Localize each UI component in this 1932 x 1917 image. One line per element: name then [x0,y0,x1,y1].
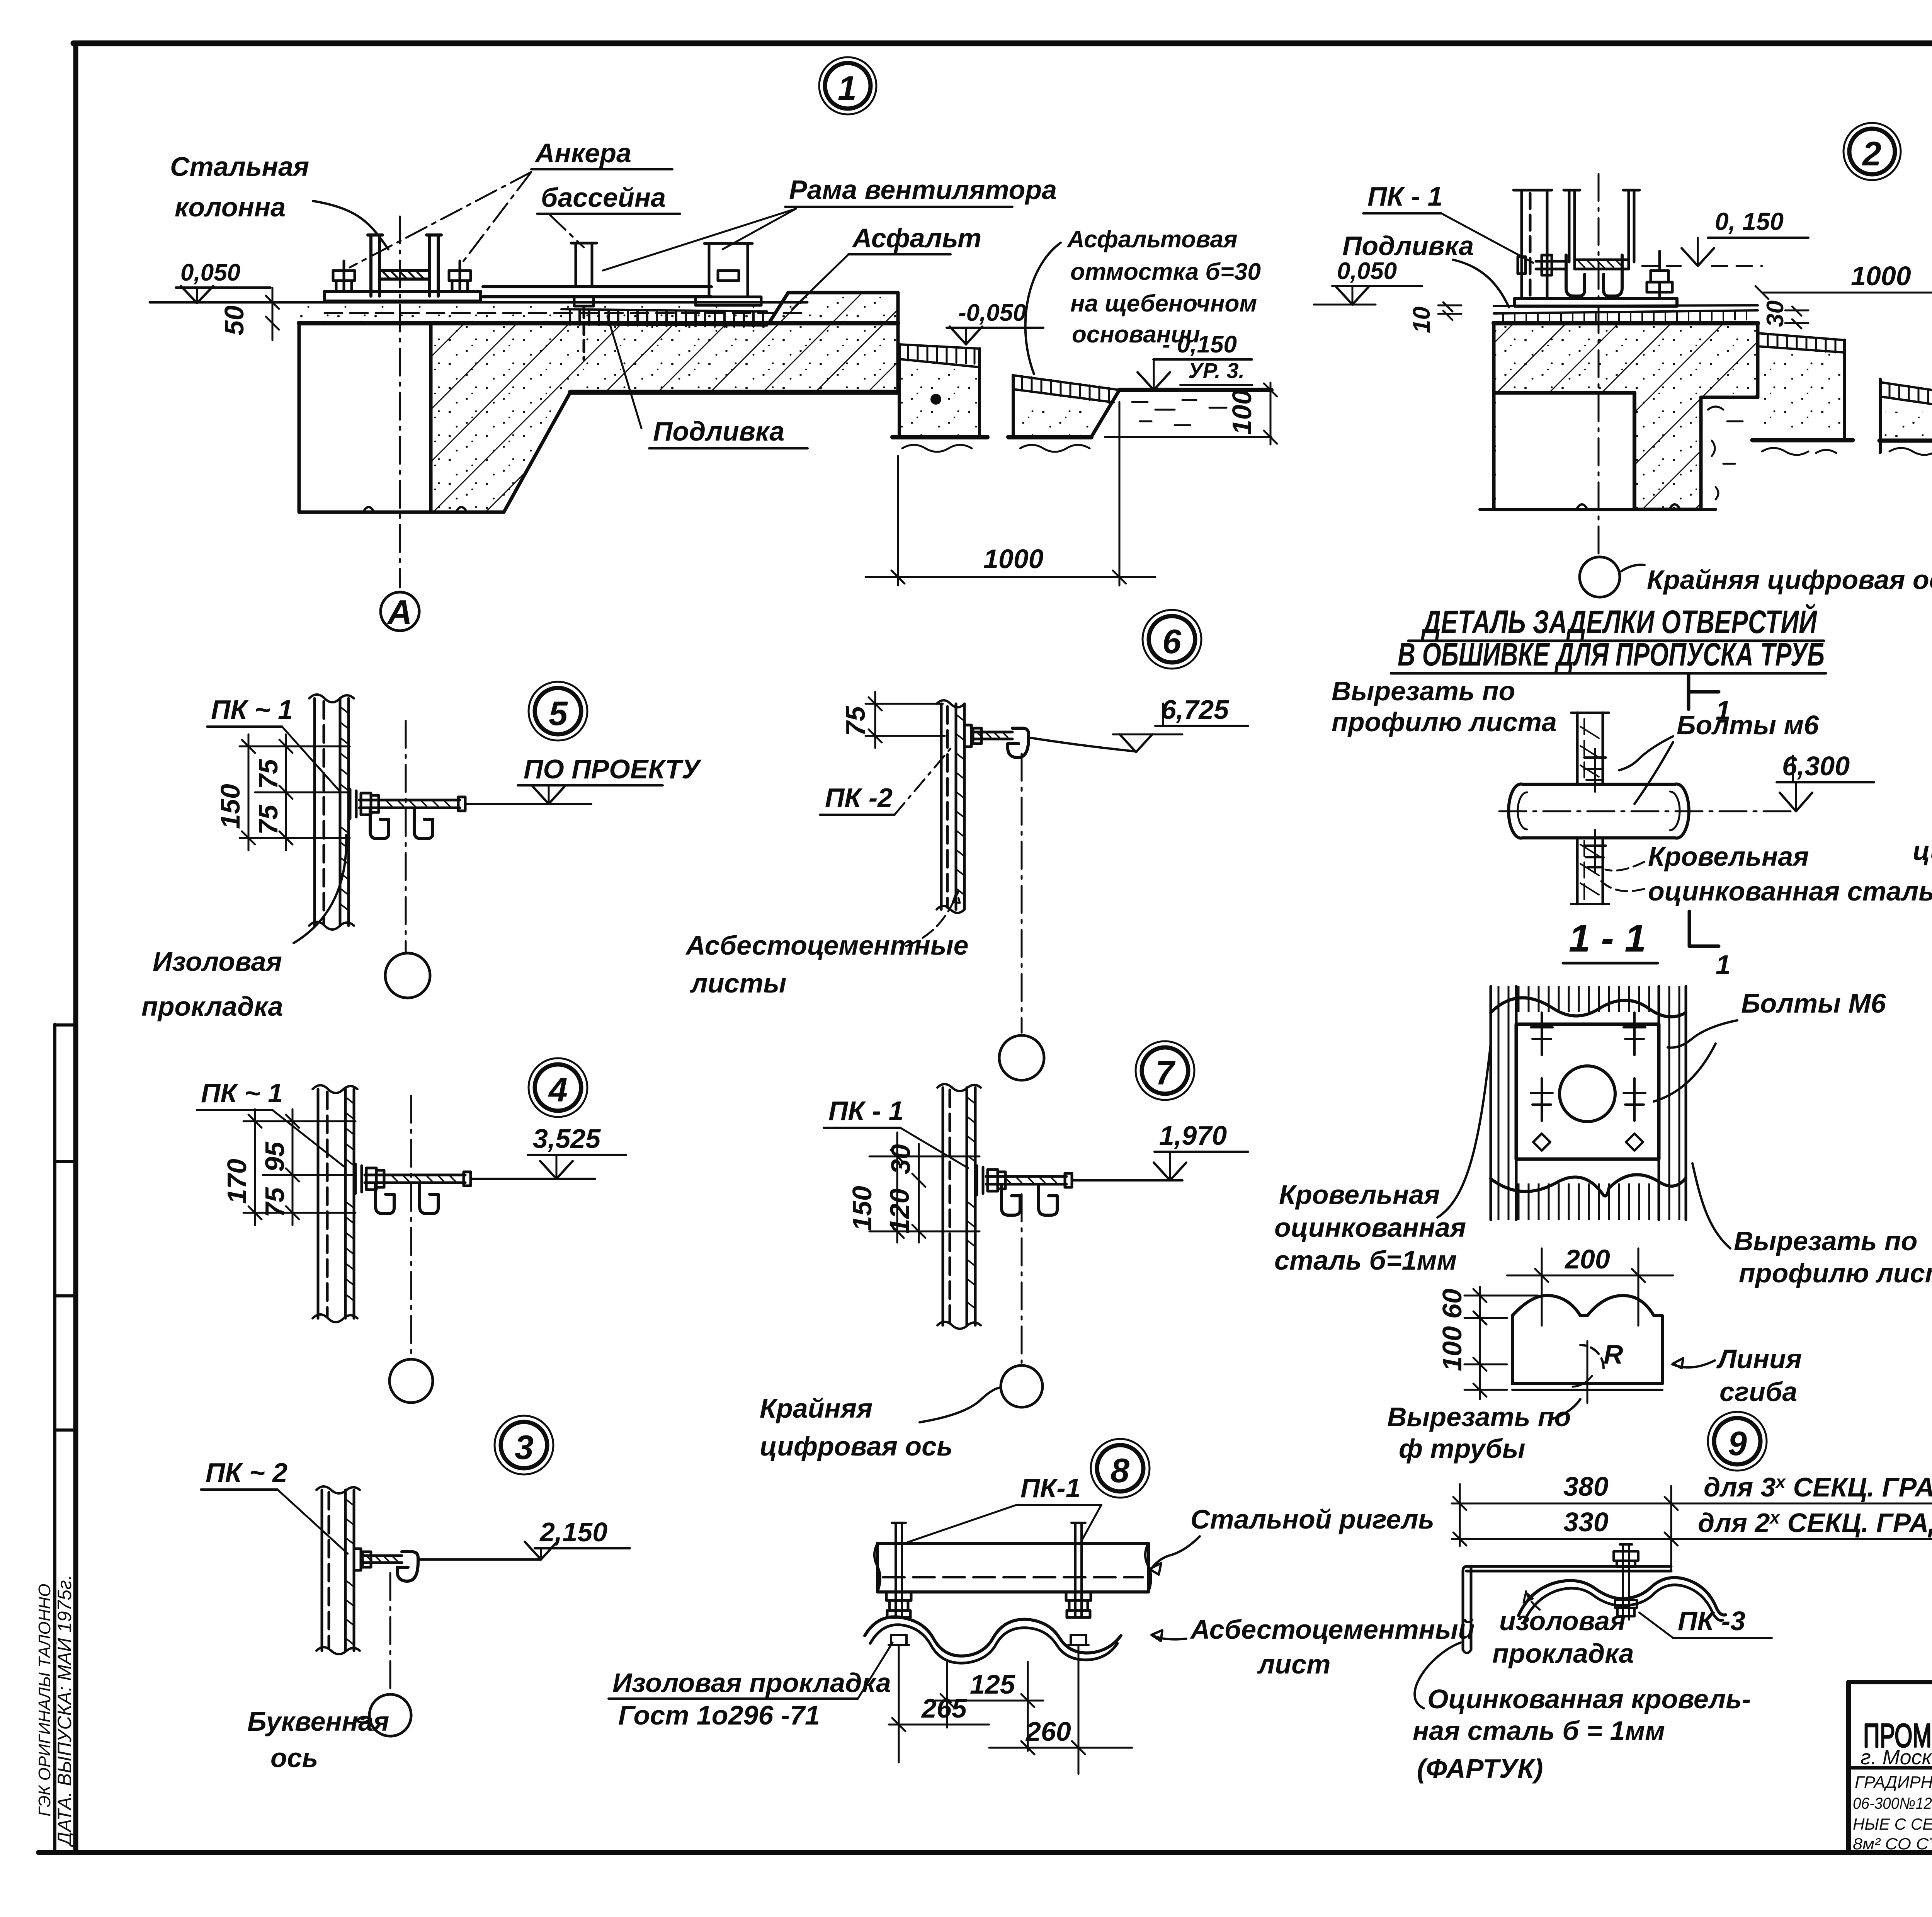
pipe body [1509,784,1689,838]
ground line right of B [1119,388,1271,392]
svg-text:200: 200 [1564,1244,1610,1274]
detail 11 group [1913,516,1932,1020]
axis circle empty [1580,557,1620,597]
svg-text:ГЭК ОРИГИНАЛЫ ТАЛОННО: ГЭК ОРИГИНАЛЫ ТАЛОННО [35,1583,54,1817]
apron D freestanding [1879,379,1932,455]
label krainyaya cifrovaya os [1647,565,1932,595]
sheet frame bottom line [39,1850,1932,1855]
svg-text:Стальная: Стальная [170,152,309,182]
svg-text:380: 380 [1563,1471,1609,1502]
label asbestocementnye listy [685,930,969,998]
svg-text:бассейна: бассейна [541,182,666,213]
detail 4 group [197,1058,626,1403]
title line 1 [1421,603,1817,640]
detail 6 bubble [1143,610,1201,669]
corrugated strips vertical hatch [1491,986,1516,1220]
axis circle [385,953,430,998]
plate with wavy top [1491,998,1686,1017]
sheet frame left line [73,43,78,1852]
detail 1 bubble [819,57,876,114]
detail 6 group [685,610,1248,1080]
inner left stamp line [53,1024,56,1852]
dim extension lines [899,1646,1078,1774]
svg-text:Асфальт: Асфальт [852,223,981,253]
svg-text:Асфальтовая: Асфальтовая [1066,226,1238,253]
steel beam [874,1543,1151,1592]
svg-text:0,050: 0,050 [1337,258,1397,284]
svg-text:(ФАРТУК): (ФАРТУК) [1417,1754,1543,1784]
svg-text:Гост 1о296 -71: Гост 1о296 -71 [618,1700,820,1730]
steel column left [1514,190,1552,298]
svg-text:прокладка: прокладка [1492,1638,1634,1668]
elevation 1,970 [1154,1120,1248,1180]
detail 7 group [760,1041,1248,1461]
label PK-1 [828,1096,904,1126]
detail 8 bubble [1091,1439,1150,1498]
stamp rotated text date [35,1575,75,1847]
svg-text:7: 7 [1155,1054,1176,1092]
svg-text:Вырезать по: Вырезать по [1734,1226,1917,1256]
label PK-2 [206,1457,287,1488]
svg-text:сгиба: сгиба [1719,1377,1797,1407]
detail 7 bubble [1136,1041,1194,1100]
detail 2 group [1314,123,1932,597]
svg-text:100: 100 [1437,1326,1467,1371]
svg-text:г. Москва: г. Москва [1861,1746,1932,1769]
svg-text:150: 150 [847,1186,877,1231]
svg-text:ПК -2: ПК -2 [825,783,893,813]
slab bottom thick line [570,390,898,395]
PK-1 leaders [908,1505,1101,1542]
podlivka leader [607,316,641,428]
dim 30 right [1762,300,1808,329]
dims 60 100 [1437,1287,1538,1399]
label asphalt [852,223,981,253]
dim 10 left [1408,302,1461,333]
svg-text:Крайняя цифровая ось: Крайняя цифровая ось [1647,565,1932,595]
svg-text:для 2х СЕКЦ. ГРАДИРНИ: для 2х СЕКЦ. ГРАДИРНИ [1698,1507,1932,1538]
axis dash-dot [1021,754,1023,1033]
elevation po proektu [518,754,702,804]
ankera leaders [350,172,584,267]
svg-text:125: 125 [970,1669,1015,1699]
section mark 1 bottom [1689,911,1731,980]
column axis dash-dot [1598,174,1600,556]
elevation 0,050 d2 [1314,258,1422,305]
label krainyaya cifrovaya os [760,1393,953,1461]
sheet vertical with hatch [1571,713,1609,904]
dim 1000 d2 [1755,261,1932,398]
soil marks right of block [1708,407,1743,499]
label podlivka [653,416,784,446]
detail 5 group [141,682,702,1021]
detail 3 bubble [495,1416,553,1474]
label bolty M6 lower [1741,988,1886,1018]
label rama ventilyatora [789,175,1057,205]
column axis dash-dot [399,216,401,587]
otmostka leader [1026,243,1061,374]
svg-text:30: 30 [886,1144,916,1174]
bottom break bumps [1577,504,1680,509]
svg-text:Рама вентилятора: Рама вентилятора [789,175,1057,205]
axis circle A [381,592,419,631]
svg-text:1000: 1000 [983,544,1044,574]
label izolovaya d9 [1492,1606,1634,1668]
svg-text:120: 120 [884,1188,915,1234]
svg-text:Асбестоцементный: Асбестоцементный [1190,1614,1475,1645]
svg-text:1: 1 [838,69,857,107]
datum line right [471,1178,595,1180]
svg-text:Линия: Линия [1716,1344,1802,1374]
svg-text:А: А [387,593,412,631]
rama leaders [603,209,796,271]
label stalnoy rigel [1190,1504,1434,1534]
svg-text:ная сталь б = 1мм: ная сталь б = 1мм [1413,1716,1665,1746]
stamp box divider [55,1428,76,1432]
dim 265 [889,1693,989,1731]
right washer stack [1066,1592,1091,1617]
svg-text:прокладка: прокладка [141,991,283,1021]
svg-text:Подливка: Подливка [1342,231,1474,261]
column base plate [325,291,481,301]
svg-text:на щебеночном: на щебеночном [1070,290,1257,317]
stamp tick 2 [55,1160,76,1163]
svg-text:ГРАДИРНИ С ВЕНТИЛЯТОРАМИ: ГРАДИРНИ С ВЕНТИЛЯТОРАМИ [1855,1773,1932,1792]
stamp tick 1 [55,1023,76,1027]
svg-text:95: 95 [260,1141,290,1172]
anchor bolt right [1647,251,1672,298]
bolt assembly [350,789,465,819]
bolt assembly [977,1166,1072,1195]
dim 100 right [1227,383,1277,444]
axis circle [1001,1365,1043,1407]
label stalnaya kolonna [170,152,309,222]
svg-text:75: 75 [253,804,283,835]
datum line right [1028,737,1135,751]
pipe centerline [1499,810,1797,812]
R arc mark [1573,1339,1623,1403]
svg-text:В ОБШИВКЕ ДЛЯ ПРОПУСКА ТРУ: В ОБШИВКЕ ДЛЯ ПРОПУСКА ТРУБ [1398,636,1825,672]
svg-text:УР. 3.: УР. 3. [1188,358,1245,383]
PK-1 clamp hooks [1566,255,1622,296]
svg-text:лист: лист [1257,1649,1330,1679]
svg-text:265: 265 [921,1693,967,1723]
svg-text:1000: 1000 [1851,261,1911,291]
clamp hooks [370,809,433,839]
label PK-1 [201,1078,283,1108]
concrete block hatched [1494,323,1758,509]
bolt at fartuk [1614,1544,1638,1619]
svg-text:ось: ось [270,1743,318,1773]
axis dash-dot [405,721,407,952]
svg-text:отмостка б=30: отмостка б=30 [1070,259,1261,285]
svg-text:Подливка: Подливка [653,416,784,446]
svg-text:Крайняя: Крайняя [760,1393,872,1423]
axis circle [389,1359,433,1403]
svg-text:Изоловая: Изоловая [153,947,282,977]
plate bottom wave [1491,1175,1686,1196]
ground surface line [150,301,807,304]
pool anchor bolts mid [571,243,597,359]
dim 1000 [866,402,1155,586]
fartuk flat sheet [1512,1296,1662,1390]
apron block B [1009,375,1119,452]
detail 5 bubble [529,682,587,741]
detail 4 bubble [529,1058,587,1117]
svg-text:ПК ~ 1: ПК ~ 1 [211,695,293,725]
elevation 2,150 [525,1517,630,1559]
steel column channel [368,235,441,296]
svg-text:6,725: 6,725 [1161,695,1229,725]
section mark 1 top [1689,674,1731,725]
bolt assembly [355,1164,471,1193]
pier outline [1494,393,1634,509]
plate circle [1560,1066,1615,1122]
svg-text:листы: листы [690,968,786,998]
stamp tick 3 [55,1294,76,1297]
dim 125 [935,1669,1043,1707]
svg-text:изоловая: изоловая [1499,1606,1626,1636]
label asphalt otmostka [1066,226,1261,348]
grout band bottom line [299,321,898,325]
axis dash-dot [1021,1194,1023,1363]
svg-text:Анкера: Анкера [534,138,631,168]
label bolty m6 [1677,710,1819,740]
datum line right [1072,1179,1182,1182]
ankera underlines [531,169,680,214]
svg-text:- 0,150: - 0,150 [1162,331,1237,358]
asphalt tick band on surface [561,309,767,327]
clamp hooks [376,1183,438,1214]
svg-text:50: 50 [219,305,249,335]
corrugated sheet d9 [1519,1578,1726,1616]
axis circle [369,1694,411,1736]
svg-text:06-300№12,5 ПЛЕНОЧНЫЕ ИКАПЕЛЬ: 06-300№12,5 ПЛЕНОЧНЫЕ ИКАПЕЛЬ [1853,1794,1932,1812]
left nut below sheet [889,1635,909,1645]
svg-text:Болты м6: Болты м6 [1677,710,1819,740]
label krovelnaya 2 [1274,1180,1466,1275]
column profile [309,695,354,930]
fartuk angle sheet [1463,1566,1671,1653]
detail 8 group [609,1439,1475,1774]
datum line right [465,803,591,805]
svg-text:Стальной ригель: Стальной ригель [1190,1504,1434,1534]
svg-text:Кровельная: Кровельная [1648,841,1809,872]
podlivka leader d2 [1453,260,1509,307]
plate bolts crosses [1531,1013,1645,1151]
label izolovaya prokladka [141,947,283,1021]
axis dash-dot [410,1096,412,1357]
fan frame member [483,287,711,297]
label liniya sgiba [1716,1344,1802,1407]
svg-text:3,525: 3,525 [533,1124,601,1154]
svg-text:4: 4 [548,1071,568,1109]
svg-text:ПК -3: ПК -3 [1678,1606,1745,1636]
grout line under plate [1494,305,1758,306]
elevation 0,050 left [176,259,270,303]
label ocinkovannaya krovelnaya [1413,1684,1751,1784]
apron C attached [1752,333,1853,455]
dims 170 95 75 [222,1109,355,1225]
label vyrezat po f truby [1387,1402,1571,1464]
left anchor bolt [333,261,355,291]
pier cutout white [1496,393,1634,509]
detail 3 group [201,1416,630,1773]
svg-text:75: 75 [840,706,871,736]
sheet frame top line [73,41,1932,46]
detail 2 bubble [1844,123,1901,180]
label asbest list [1190,1614,1475,1679]
svg-text:1 - 1: 1 - 1 [1569,917,1646,960]
section label 1-1 [1569,917,1646,960]
svg-text:100: 100 [1227,390,1257,435]
label bukvennaya os [247,1706,389,1773]
detail 9 group [1413,1412,1932,1784]
leader kolonna [313,201,388,249]
svg-text:ДЕТАЛЬ ЗАДЕЛКИ ОТВЕРСТИЙ: ДЕТАЛЬ ЗАДЕЛКИ ОТВЕРСТИЙ [1421,603,1817,640]
svg-text:ПК - 1: ПК - 1 [1367,181,1443,211]
svg-text:9: 9 [1728,1424,1747,1462]
svg-text:R: R [1604,1339,1623,1369]
svg-text:75: 75 [260,1187,290,1217]
svg-text:ДАТА. ВЫПУСКА: МАЙ 1975г: ДАТА. ВЫПУСКА: МАЙ 1975г. [54,1575,75,1847]
svg-text:150: 150 [215,784,245,829]
pier break marks [363,507,467,512]
title line 2 [1398,636,1825,672]
left washer stack [886,1592,911,1617]
left bolt through beam [892,1523,906,1616]
column profile [316,1486,360,1654]
svg-text:1,970: 1,970 [1159,1120,1227,1151]
elevation 6,725 [1113,695,1248,752]
bolt with hook clamp [964,725,1029,758]
corrugated sheet [865,1617,1121,1656]
column profile [313,1085,357,1322]
right support column [696,243,761,305]
svg-text:3: 3 [515,1428,534,1466]
svg-text:1: 1 [1716,950,1731,980]
svg-text:цифровая ось: цифровая ось [760,1431,953,1461]
bolt crosses [1584,749,1606,873]
dim line 330 [1452,1507,1932,1546]
datum line right [419,1558,541,1561]
concrete slab hatched section [431,293,898,512]
bolt with hook clamp [354,1549,418,1581]
label PK-1 [211,695,293,725]
svg-text:ПК ~ 2: ПК ~ 2 [206,1457,287,1488]
detail 9 bubble [1708,1412,1767,1471]
svg-text:ПК-1: ПК-1 [1020,1473,1081,1503]
dim 50 left [219,288,279,340]
hidden dash line under plates [325,312,807,314]
svg-text:60: 60 [1437,1289,1467,1319]
label PK-1 [1020,1473,1081,1503]
svg-text:75: 75 [253,759,283,789]
dims 150 and 75 75 [215,734,350,850]
svg-text:Оцинкованная кровель-: Оцинкованная кровель- [1427,1684,1751,1714]
middle column pipe detail group [1274,603,1932,1464]
block top thick line [1494,321,1758,325]
svg-text:330: 330 [1563,1507,1609,1537]
grout plus asphalt band [1494,310,1758,323]
elevation 3,525 [528,1124,626,1179]
svg-text:0, 150: 0, 150 [1715,208,1784,235]
svg-text:ф трубы: ф трубы [1399,1433,1525,1464]
elevation 0,150 d2 [1642,208,1808,266]
apron block A [893,344,987,452]
label PK-2 [825,783,893,813]
elevation 6,300 [1777,751,1874,811]
dim ext verticals [1460,1484,1671,1571]
column profile [937,1084,981,1329]
sheet profile [937,700,964,913]
svg-text:Изоловая прокладка: Изоловая прокладка [612,1668,891,1698]
base plate [1515,298,1677,306]
label PK-3 d9 [1678,1606,1745,1636]
label ankera basseina [534,138,666,213]
connecting bolt [1518,255,1566,275]
svg-text:оцинкованная сталь: оцинкованная сталь [1648,876,1932,906]
svg-text:НЫЕ С СЕКЦИЯМИ ПЛОЩАДЬЮ: НЫЕ С СЕКЦИЯМИ ПЛОЩАДЬЮ [1853,1815,1932,1833]
svg-text:10: 10 [1408,306,1435,333]
bolty leaders [1619,736,1673,804]
svg-text:-0,050: -0,050 [958,300,1026,326]
svg-text:профилю листа: профилю листа [1739,1258,1932,1288]
svg-text:Болты М6: Болты М6 [1741,988,1886,1018]
label podlivka d2 [1342,231,1474,261]
dim line 380 [1452,1471,1932,1510]
svg-text:ПО ПРОЕКТУ: ПО ПРОЕКТУ [524,754,702,784]
right nut below sheet [1068,1635,1088,1645]
dim 200 [1507,1244,1673,1326]
label krainyaya cifrovaya os 11 [1913,789,1932,866]
soil marks [1132,400,1226,425]
svg-text:для 3х СЕКЦ. ГРАДИРНИ: для 3х СЕКЦ. ГРАДИРНИ [1704,1472,1932,1502]
label krovelnaya ocinkovannaya stal [1648,841,1932,906]
svg-text:260: 260 [1025,1716,1071,1747]
clamp hooks [1002,1185,1057,1215]
label PK-1 [1367,181,1443,211]
svg-text:2: 2 [1862,134,1881,173]
svg-text:6: 6 [1162,622,1182,661]
svg-text:2,150: 2,150 [539,1517,607,1547]
top dim 75 [840,692,945,748]
axis circle [999,1035,1044,1080]
grout band top speckle [299,304,898,323]
dim 260 [989,1716,1132,1754]
right bolt through beam [1071,1523,1085,1616]
elevation -0,150 UR3 [1138,331,1252,390]
text dlya 2h sekc [1698,1507,1932,1538]
svg-text:Вырезать по: Вырезать по [1387,1402,1571,1432]
title block frame [1849,1682,1932,1852]
soil band line 100 [1105,436,1271,438]
elevation -0,050 [947,300,1043,344]
svg-text:Кровельная: Кровельная [1279,1180,1440,1210]
axis dash-dot [389,1573,391,1692]
svg-text:профилю листа: профилю листа [1332,707,1557,737]
left pier [299,323,504,512]
svg-text:сталь б=1мм: сталь б=1мм [1274,1245,1457,1275]
fan frame channel [1564,190,1639,269]
title block texts [1853,1689,1932,1896]
svg-text:8: 8 [1111,1451,1129,1490]
text dlya 3h sekc [1704,1472,1932,1502]
block bottom line [1480,508,1716,511]
svg-text:цифровая ось: цифровая ось [1913,836,1932,866]
svg-text:5: 5 [549,694,568,732]
svg-text:колонна: колонна [175,192,286,222]
